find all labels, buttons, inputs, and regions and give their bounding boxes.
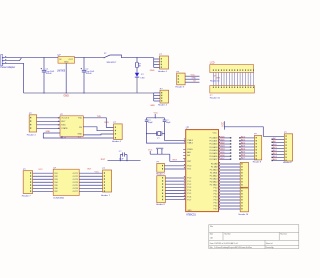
svg-text:TXD: TXD	[78, 118, 83, 120]
svg-text:Header 7: Header 7	[101, 195, 111, 197]
svg-text:Power Adapter: Power Adapter	[0, 66, 15, 69]
svg-text:OUT1: OUT1	[73, 173, 78, 175]
svg-text:P1.2: P1.2	[187, 184, 191, 186]
svg-text:OUT4: OUT4	[73, 182, 79, 184]
svg-text:Header 4: Header 4	[158, 105, 168, 107]
svg-text:P3.2: P3.2	[214, 194, 218, 196]
svg-text:P3.6: P3.6	[214, 206, 218, 208]
svg-text:OUT5: OUT5	[73, 185, 78, 187]
svg-text:P1.5: P1.5	[187, 193, 191, 195]
svg-text:P1.7: P1.7	[187, 199, 191, 201]
svg-text:P0.0/AD0: P0.0/AD0	[209, 137, 217, 140]
svg-text:GND: GND	[187, 210, 192, 212]
svg-text:Header 16: Header 16	[210, 98, 221, 100]
svg-text:P3.1: P3.1	[187, 169, 191, 171]
svg-text:IN3: IN3	[55, 179, 58, 181]
svg-text:VCC: VCC	[154, 113, 159, 115]
svg-text:OUT: OUT	[68, 59, 73, 61]
svg-text:Header 4: Header 4	[112, 141, 122, 143]
svg-text:OUT: OUT	[87, 168, 92, 170]
svg-text:IN2: IN2	[55, 176, 58, 178]
svg-text:P1.3: P1.3	[187, 187, 191, 189]
svg-text:GND: GND	[150, 70, 155, 72]
svg-text:Size: Size	[210, 234, 213, 236]
svg-text:P2.6/A14: P2.6/A14	[210, 181, 218, 184]
svg-text:VCC/3.3: VCC/3.3	[61, 118, 70, 120]
svg-text:2/4/2023 at 10:42:18 AM: 2/4/2023 at 10:42:18 AM 1 of 1	[214, 242, 238, 245]
svg-text:IN6: IN6	[55, 188, 58, 190]
svg-text:P2.4/A12: P2.4/A12	[210, 175, 218, 178]
svg-text:30pF: 30pF	[148, 122, 153, 124]
svg-text:KEY: KEY	[61, 121, 66, 123]
svg-text:RST: RST	[173, 160, 178, 162]
svg-text:Header 16: Header 16	[210, 80, 220, 83]
svg-text:100uF: 100uF	[86, 73, 93, 75]
svg-text:Revision: Revision	[280, 234, 287, 236]
svg-text:Title: Title	[210, 225, 213, 228]
svg-text:IN1: IN1	[55, 173, 58, 175]
svg-text:P0.5/AD5: P0.5/AD5	[209, 152, 217, 155]
svg-text:Drawn By:: Drawn By:	[266, 246, 275, 249]
svg-text:P1.0: P1.0	[187, 178, 191, 180]
svg-text:P3.4: P3.4	[214, 200, 218, 202]
svg-text:RXD: RXD	[61, 125, 66, 127]
svg-text:P0.7/AD7: P0.7/AD7	[209, 158, 217, 161]
svg-text:LM7805: LM7805	[57, 71, 66, 73]
svg-text:P0.4/AD4: P0.4/AD4	[209, 149, 217, 152]
svg-text:OUT7: OUT7	[73, 191, 78, 193]
svg-text:P3.0: P3.0	[214, 188, 218, 190]
svg-text:IN7: IN7	[55, 191, 58, 193]
svg-text:P2.3/A11: P2.3/A11	[210, 172, 217, 175]
svg-text:100uF: 100uF	[46, 73, 53, 75]
svg-text:P2.5/A13: P2.5/A13	[210, 178, 218, 181]
svg-text:GND: GND	[46, 131, 51, 133]
svg-text:D:\Users\Desktop\Projects\MCU5: D:\Users\Desktop\Projects\MCU51\main.Sch…	[214, 246, 252, 249]
svg-text:Header 16: Header 16	[239, 213, 249, 216]
svg-text:P1.1: P1.1	[187, 181, 191, 183]
svg-text:P0.1/AD1: P0.1/AD1	[209, 140, 217, 143]
svg-text:Header 4: Header 4	[27, 134, 37, 136]
svg-text:OUT2: OUT2	[73, 176, 78, 178]
svg-text:AT89C51: AT89C51	[186, 214, 196, 217]
svg-text:Header 8: Header 8	[156, 203, 165, 206]
svg-text:XTAL1: XTAL1	[187, 142, 193, 145]
svg-text:GND: GND	[77, 134, 82, 136]
svg-text:VCC: VCC	[38, 169, 43, 171]
svg-text:XTAL2: XTAL2	[187, 139, 193, 142]
svg-text:File:: File:	[210, 247, 214, 249]
svg-text:A4: A4	[211, 236, 213, 239]
svg-text:OUT3: OUT3	[73, 179, 78, 181]
svg-text:STATE: STATE	[61, 127, 68, 130]
svg-text:P2.7/A15: P2.7/A15	[210, 184, 218, 187]
svg-text:Header 2: Header 2	[156, 173, 165, 176]
svg-text:Header 4: Header 4	[158, 71, 168, 73]
svg-text:P3.1: P3.1	[214, 191, 218, 193]
svg-text:Header 8: Header 8	[283, 161, 292, 164]
svg-text:VCC: VCC	[212, 132, 217, 134]
svg-text:IN5: IN5	[55, 185, 58, 187]
svg-text:GND: GND	[150, 105, 155, 107]
svg-text:LED: LED	[141, 77, 146, 79]
svg-text:Sheet of: Sheet of	[266, 242, 273, 245]
svg-text:P2.1/A9: P2.1/A9	[211, 166, 218, 169]
svg-text:PSEN: PSEN	[187, 149, 193, 151]
svg-text:Header 3: Header 3	[175, 86, 185, 88]
svg-text:10uF: 10uF	[119, 158, 124, 160]
svg-text:SW-SPDT: SW-SPDT	[107, 62, 118, 64]
svg-text:P3.0: P3.0	[187, 165, 191, 167]
svg-text:VCC: VCC	[191, 75, 196, 77]
svg-text:OUT6: OUT6	[73, 188, 78, 190]
svg-text:P3.3: P3.3	[214, 197, 218, 199]
svg-text:RST: RST	[101, 159, 106, 161]
svg-text:Header 7: Header 7	[22, 196, 32, 198]
svg-text:GND: GND	[64, 95, 70, 98]
svg-text:P3.5: P3.5	[214, 203, 218, 205]
svg-text:P0.3/AD3: P0.3/AD3	[209, 146, 217, 149]
svg-text:P2.2/A10: P2.2/A10	[210, 169, 218, 172]
svg-text:TXD: TXD	[97, 116, 102, 118]
svg-text:ULN2003A: ULN2003A	[53, 197, 64, 200]
svg-text:RXD: RXD	[104, 122, 109, 124]
svg-text:30pF: 30pF	[166, 122, 171, 124]
svg-text:P3.7: P3.7	[214, 209, 218, 211]
svg-text:P2.0/A8: P2.0/A8	[211, 163, 218, 166]
svg-text:P0.2/AD2: P0.2/AD2	[209, 143, 217, 146]
svg-text:LCD: LCD	[210, 62, 215, 64]
svg-text:Header 8: Header 8	[253, 160, 262, 163]
svg-text:P1.6: P1.6	[187, 196, 191, 198]
svg-text:GND: GND	[191, 78, 196, 80]
svg-text:P0.6/AD6: P0.6/AD6	[209, 155, 217, 158]
svg-text:S?: S?	[104, 53, 106, 55]
svg-text:Number: Number	[225, 233, 232, 236]
svg-text:RW: RW	[217, 78, 220, 80]
